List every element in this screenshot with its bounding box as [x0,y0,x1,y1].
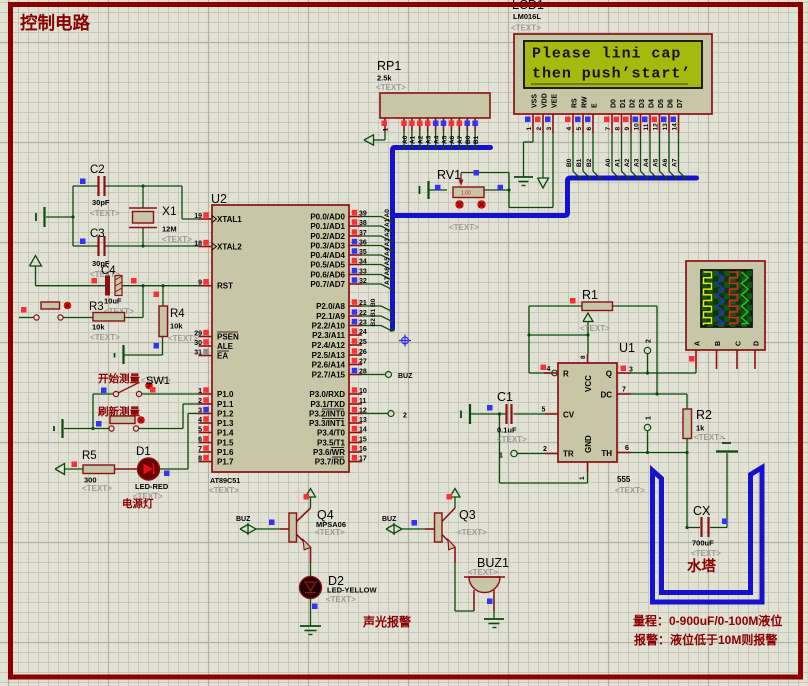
svg-text:2: 2 [198,398,202,405]
svg-text:P0.2/AD2: P0.2/AD2 [310,232,345,241]
svg-text:<TEXT>: <TEXT> [376,83,406,92]
wire Q3 collector to power arrow [450,489,460,509]
svg-text:P1.1: P1.1 [217,400,234,409]
svg-text:0.1uF: 0.1uF [497,426,517,435]
U2 P0 wires to bus with net labels A0-A7 [362,209,393,290]
svg-text:1: 1 [579,476,586,480]
wire BUZ1 right pin to ground [493,592,495,619]
water tower (blue tank outline) [653,468,763,603]
svg-text:700uF: 700uF [692,539,714,548]
svg-text:A4: A4 [433,135,440,144]
svg-text:P0.6/AD6: P0.6/AD6 [310,271,345,280]
resistor R4 [154,292,199,349]
svg-text:10uF: 10uF [104,297,122,306]
wire VCC net: R1 left / 555 R / VCC [527,306,589,373]
svg-text:<TEXT>: <TEXT> [90,209,120,218]
ground cell symbol (RV1) [420,181,429,199]
svg-text:A1: A1 [384,218,391,227]
svg-text:D1: D1 [136,446,151,458]
svg-text:14: 14 [672,123,679,131]
svg-text:2.5k: 2.5k [377,74,392,83]
U2 P2.0-P2.2 wires to bus with net labels B0-B2 [362,298,393,331]
svg-text:PSEN: PSEN [217,333,239,342]
svg-text:<TEXT>: <TEXT> [511,24,541,33]
svg-text:电源灯: 电源灯 [122,497,154,510]
resistor R2 [683,408,724,442]
svg-text:4: 4 [198,417,202,424]
svg-text:10k: 10k [92,323,105,332]
svg-text:B1: B1 [370,308,377,317]
svg-text:B: B [715,341,722,346]
svg-text:B0: B0 [465,135,472,144]
svg-text:A4: A4 [643,158,650,167]
svg-text:5: 5 [542,407,546,414]
wire button2 ground rail [64,428,109,430]
wire 555 Q output to scope A [631,369,696,373]
svg-text:A6: A6 [662,158,669,167]
svg-text:6: 6 [625,445,629,452]
svg-text:11: 11 [643,123,650,130]
svg-text:<TEXT>: <TEXT> [209,486,239,495]
svg-text:25: 25 [359,339,367,346]
svg-text:LM016L: LM016L [513,12,541,21]
svg-text:R4: R4 [170,308,185,320]
svg-text:<TEXT>: <TEXT> [580,324,610,333]
svg-text:P2.5/A13: P2.5/A13 [312,351,346,360]
svg-text:P1.6: P1.6 [217,448,234,457]
RV1 wiper arrow [459,173,464,186]
svg-text:1: 1 [526,127,533,131]
terminal 2 (to P3.2) near U1 [644,347,650,374]
buzzer BUZ1 [464,556,509,611]
resistor R1 [570,288,613,333]
BUZ terminal (Q4 base) [240,523,280,535]
svg-text:E: E [591,103,598,108]
LCD pins [525,93,684,133]
svg-text:14: 14 [359,427,367,434]
svg-text:A2: A2 [624,158,631,167]
wire battery to CX right plate [710,453,727,528]
svg-text:D6: D6 [667,99,674,108]
wire Q4 collector to power arrow [306,489,316,509]
LED D2 (yellow) [300,574,378,609]
svg-text:BUZ: BUZ [398,373,413,380]
svg-text:CV: CV [563,411,575,420]
svg-text:<TEXT>: <TEXT> [694,433,724,442]
wire button2 right to U2 P1.1 [139,404,200,429]
svg-text:C2: C2 [90,164,105,176]
svg-text:P2.7/A15: P2.7/A15 [312,371,346,380]
input arrow terminal (R5) [55,464,65,475]
svg-text:P1.5: P1.5 [217,439,234,448]
svg-text:24: 24 [359,329,367,336]
wire SW1 right to U2 P1.0 [142,393,200,395]
svg-text:1: 1 [383,128,390,132]
svg-text:8: 8 [198,456,202,463]
wire C1 left to ground [471,412,506,415]
svg-text:水塔: 水塔 [687,557,716,575]
svg-text:P2.0/A8: P2.0/A8 [316,302,345,311]
ground symbol (XTAL caps) [36,207,45,227]
svg-text:4: 4 [547,366,551,373]
svg-text:1: 1 [499,453,503,460]
svg-text:D4: D4 [648,99,655,108]
svg-text:R: R [563,370,569,379]
svg-text:13: 13 [662,123,669,131]
svg-text:P2.6/A14: P2.6/A14 [312,361,346,370]
svg-text:P1.3: P1.3 [217,419,234,428]
svg-text:12M: 12M [162,225,177,234]
svg-text:8: 8 [615,127,622,131]
svg-text:555: 555 [617,475,631,484]
svg-text:A0: A0 [402,135,409,144]
svg-text:控制电路: 控制电路 [20,13,90,33]
svg-text:<TEXT>: <TEXT> [497,435,527,444]
svg-text:B1: B1 [473,135,480,144]
wire 555 GND net [500,414,588,483]
svg-text:P1.4: P1.4 [217,429,234,438]
svg-text:C3: C3 [90,228,105,240]
svg-text:A1: A1 [614,158,621,167]
svg-text:U1: U1 [619,341,635,355]
svg-text:声光报警: 声光报警 [362,614,411,629]
svg-text:VEE: VEE [551,94,558,108]
svg-text:刷新测量: 刷新测量 [98,405,140,418]
capacitor CX [691,504,728,558]
svg-text:U2: U2 [211,192,227,206]
svg-text:A2: A2 [384,228,391,237]
svg-text:D: D [754,341,761,346]
svg-text:P1.2: P1.2 [217,410,234,419]
svg-text:A7: A7 [457,135,464,144]
svg-text:RV1: RV1 [437,168,461,182]
ground symbol (LCD VSS) [514,177,533,186]
svg-text:<TEXT>: <TEXT> [162,235,192,244]
BUZ terminal (Q3 base) [386,523,425,535]
microcontroller U2 AT89C51 [209,192,349,495]
wire D1 net to U2 P1.2 [160,414,200,470]
svg-text:BUZ: BUZ [236,516,251,523]
transistor Q3 [382,494,487,563]
svg-text:P0.7/AD7: P0.7/AD7 [310,280,345,289]
ground symbol (BUZ1) [484,619,504,628]
svg-text:13: 13 [359,417,367,424]
svg-text:19: 19 [194,213,202,220]
svg-text:5: 5 [576,127,583,131]
svg-text:A5: A5 [441,135,448,144]
svg-text:SW1: SW1 [146,375,170,387]
svg-text:A6: A6 [449,135,456,144]
wire reset button left stub [19,317,34,319]
svg-text:<TEXT>: <TEXT> [449,223,479,232]
svg-text:TR: TR [563,450,574,459]
svg-text:<TEXT>: <TEXT> [691,549,721,558]
wire XTAL2 net (C3 to U2 pin18) [73,245,199,247]
svg-text:P0.4/AD4: P0.4/AD4 [310,251,345,260]
svg-text:6: 6 [586,127,593,131]
svg-text:12: 12 [653,123,660,131]
timer U1 555 [499,339,653,495]
svg-text:A5: A5 [384,257,391,266]
svg-text:1k: 1k [696,424,705,433]
svg-text:VDD: VDD [541,93,548,108]
svg-text:RW: RW [581,96,588,108]
svg-text:X1: X1 [162,204,177,218]
crystal X1 [129,204,192,244]
resistor R5 [72,450,115,493]
svg-text:A3: A3 [426,135,433,144]
push button (reset) [21,302,93,320]
svg-text:P0.0/AD0: P0.0/AD0 [310,213,345,222]
terminal BUZ on P2.7 [362,372,413,381]
svg-text:26: 26 [359,349,367,356]
svg-text:P0.3/AD3: P0.3/AD3 [310,242,345,251]
ground symbol (D2) [300,626,321,635]
svg-text:<TEXT>: <TEXT> [468,568,498,577]
svg-text:7: 7 [622,387,626,394]
svg-text:B0: B0 [566,158,573,167]
svg-text:Q3: Q3 [459,508,476,522]
svg-text:27: 27 [359,359,367,366]
transistor Q4 [236,494,346,563]
svg-text:P3.0/RXD: P3.0/RXD [309,390,345,399]
svg-text:P3.3/INT1: P3.3/INT1 [309,419,346,428]
svg-text:<TEXT>: <TEXT> [315,528,345,537]
svg-text:A7: A7 [384,276,391,285]
svg-text:<TEXT>: <TEXT> [326,595,356,604]
LED D1 (red) [133,446,170,501]
svg-text:29: 29 [194,331,202,338]
resistor pack RP1 [376,59,490,118]
svg-text:RST: RST [217,282,233,291]
ground symbol (R4) [115,345,124,364]
svg-text:DC: DC [600,391,612,400]
svg-text:Please lini cap: Please lini cap [532,46,681,63]
power arrow under R1 [583,313,593,322]
svg-text:R2: R2 [696,408,712,422]
wire D2 to ground [310,599,312,627]
svg-text:A2: A2 [418,135,425,144]
svg-text:XTAL2: XTAL2 [217,243,242,252]
bus origin marker [399,335,411,347]
svg-text:3: 3 [198,408,202,415]
svg-text:P2.3/A11: P2.3/A11 [312,331,345,340]
svg-text:R5: R5 [82,450,97,462]
svg-text:3: 3 [629,367,633,374]
LCD1 LM016L display [511,0,712,114]
svg-text:D7: D7 [677,99,684,108]
svg-text:P2.1/A9: P2.1/A9 [316,312,345,321]
svg-text:GND: GND [584,435,593,453]
svg-text:R3: R3 [89,301,104,313]
wire LCD VDD to power [538,133,549,188]
resistor R3 [89,301,125,342]
svg-text:then push’start’: then push’start’ [532,66,691,83]
svg-text:1.00: 1.00 [461,191,471,197]
svg-text:P3.2/INT0: P3.2/INT0 [309,410,346,419]
svg-text:A: A [695,341,702,346]
svg-text:16: 16 [359,446,367,453]
potentiometer RV1 [435,168,503,232]
svg-text:C: C [736,341,743,346]
capacitor C1 [487,390,527,444]
LCD data/control wires to bus [566,133,687,180]
svg-text:R1: R1 [582,288,598,302]
push button (re-measure) [96,416,145,431]
capacitor C2 [80,164,120,218]
capacitor C3 [80,228,120,279]
svg-text:B2: B2 [370,318,377,327]
svg-text:C1: C1 [497,390,513,404]
svg-text:CX: CX [693,504,711,518]
RP1 pins 2-11 to bus [401,118,480,149]
wire R5 to D1 [114,468,138,470]
svg-text:<TEXT>: <TEXT> [615,486,645,495]
svg-text:报警：液位低于10M则报警: 报警：液位低于10M则报警 [634,632,777,647]
svg-text:D2: D2 [629,99,636,108]
svg-text:2: 2 [543,446,547,453]
ground symbol (C1) [461,404,470,424]
svg-text:开始测量: 开始测量 [98,372,140,385]
svg-text:AT89C51: AT89C51 [210,476,240,485]
wire crystal bottom stub [141,228,144,248]
svg-text:A0: A0 [384,209,391,218]
wire LCD VEE to RV1 wiper [461,133,553,208]
svg-text:TH: TH [601,449,612,458]
wire RV1 right terminal [485,189,510,191]
wire Q3 emitter to BUZ1 [455,563,474,611]
wire R3 to RST [125,284,145,317]
svg-text:P3.4/T0: P3.4/T0 [317,429,346,438]
svg-text:B2: B2 [586,158,593,167]
svg-text:B0: B0 [370,298,377,307]
svg-text:1: 1 [198,388,202,395]
svg-text:P3.5/T1: P3.5/T1 [317,439,346,448]
svg-text:VCC: VCC [584,375,593,392]
svg-text:30pF: 30pF [92,198,110,207]
ground symbol (buttons) [54,419,63,438]
svg-text:30: 30 [194,340,202,347]
U2 right pins [309,210,367,467]
wire crystal top stub [141,184,144,208]
svg-text:C4: C4 [101,265,116,277]
terminal 1 (555 TR) [511,450,545,456]
bus middle horizontal to LCD [393,178,697,216]
svg-text:4: 4 [566,127,573,131]
wire Q4 emitter to D2 [310,563,312,577]
svg-text:LED-RED: LED-RED [135,482,169,491]
svg-text:A4: A4 [384,247,391,256]
RP1 pin 1 with input arrow [364,118,390,145]
svg-text:11: 11 [359,398,367,405]
wire RST net [36,285,200,287]
svg-text:A0: A0 [605,158,612,167]
svg-text:XTAL1: XTAL1 [217,215,242,224]
svg-text:17: 17 [359,456,367,463]
svg-text:A1: A1 [410,135,417,144]
svg-text:P1.7: P1.7 [217,458,234,467]
svg-text:<TEXT>: <TEXT> [90,333,120,342]
terminal 1 (to TH) [644,424,650,454]
svg-text:P3.7/RD: P3.7/RD [315,458,345,467]
svg-text:10: 10 [634,123,641,131]
switch SW1 [101,375,171,397]
svg-text:D0: D0 [610,99,617,108]
svg-text:ALE: ALE [217,342,234,351]
svg-text:P2.2/A10: P2.2/A10 [312,322,346,331]
svg-text:2: 2 [536,127,543,131]
svg-text:8: 8 [580,355,587,359]
wire input arrow to R5 [64,468,83,470]
svg-text:A6: A6 [384,267,391,276]
svg-text:10: 10 [359,388,367,395]
power arrow (RST pull-up) [30,256,42,286]
svg-text:31: 31 [194,350,202,357]
svg-text:D1: D1 [620,99,627,108]
svg-text:P0.1/AD1: P0.1/AD1 [310,222,345,231]
wire LCD VSS to ground [524,133,534,177]
svg-text:B1: B1 [576,158,583,167]
svg-text:LED-YELLOW: LED-YELLOW [327,586,377,595]
U2 left pins [194,212,242,466]
svg-text:P2.4/A12: P2.4/A12 [312,341,346,350]
wire R4 bottom to ground [125,337,163,356]
wire SW1 left to ground rail [91,394,113,430]
svg-text:A7: A7 [671,158,678,167]
wire C1 to 555 CV [514,413,546,415]
oscilloscope display [686,261,765,369]
wire RV1 left terminal to cell [430,189,448,191]
svg-text:5: 5 [198,427,202,434]
svg-text:7: 7 [198,446,202,453]
svg-text:P3.1/TXD: P3.1/TXD [310,400,345,409]
svg-text:2: 2 [403,413,407,420]
svg-text:2: 2 [646,339,653,343]
wire TH net [631,451,689,454]
svg-text:A5: A5 [652,158,659,167]
svg-text:P3.6/WR: P3.6/WR [313,448,345,457]
svg-text:9: 9 [198,280,202,287]
svg-text:10k: 10k [170,322,183,331]
svg-text:RS: RS [571,98,578,108]
wire R1 right to 555 DC (pin7) [612,306,687,396]
terminal 2 on P3.2 [362,411,407,420]
battery cell (CX reference) [716,436,738,452]
wire R2 bottom to CX [685,394,700,529]
wire R4 top to RST [161,284,164,306]
svg-text:3: 3 [546,127,553,131]
capacitor C4 (polarized) [92,265,137,316]
svg-text:1: 1 [646,416,653,420]
svg-text:EA: EA [217,352,228,361]
svg-text:6: 6 [198,437,202,444]
svg-text:BUZ: BUZ [382,516,397,523]
svg-text:A3: A3 [384,238,391,247]
svg-text:18: 18 [194,241,202,248]
junction circle on 555 R pin [552,370,558,376]
svg-text:D5: D5 [658,99,665,108]
svg-text:P0.5/AD5: P0.5/AD5 [310,261,345,270]
svg-text:P1.0: P1.0 [217,390,234,399]
svg-text:<TEXT>: <TEXT> [82,484,112,493]
svg-text:A3: A3 [633,158,640,167]
svg-text:RP1: RP1 [377,59,401,73]
svg-text:<TEXT>: <TEXT> [457,528,487,537]
svg-text:9: 9 [624,127,631,131]
svg-text:7: 7 [605,127,612,131]
bus RP1 horizontal + vertical to U2 P0 [393,148,491,330]
svg-text:VSS: VSS [531,94,538,108]
